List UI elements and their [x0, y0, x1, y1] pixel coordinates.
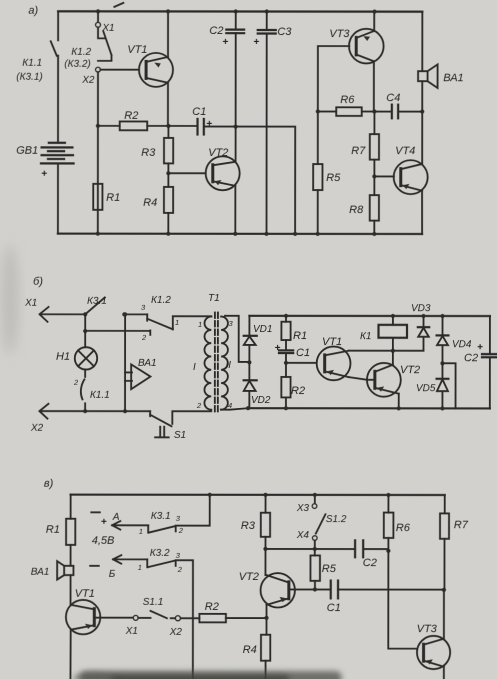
wire X2 to VT1 base — [100, 69, 139, 71]
svg-text:VD3: VD3 — [411, 303, 431, 314]
battery tap -B — [90, 555, 147, 580]
svg-text:VT3: VT3 — [329, 28, 350, 40]
wire left drop to switch — [57, 11, 59, 40]
secondary winding — [221, 317, 228, 410]
battery GB1 — [16, 143, 73, 180]
svg-text:2: 2 — [177, 565, 183, 574]
switch K3.1 blade — [85, 297, 105, 314]
resistor R1 — [281, 314, 307, 350]
primary winding — [204, 317, 211, 410]
svg-text:R1: R1 — [293, 330, 307, 342]
svg-text:Н1: Н1 — [56, 351, 70, 363]
svg-text:R6: R6 — [340, 94, 355, 106]
resistor R2 — [281, 353, 305, 408]
svg-text:С4: С4 — [386, 92, 400, 104]
svg-text:R2: R2 — [291, 385, 305, 397]
svg-text:2: 2 — [141, 333, 147, 342]
svg-text:К3.1: К3.1 — [151, 511, 171, 522]
microphone BA1 — [125, 358, 157, 389]
svg-text:I: I — [193, 362, 196, 373]
wire switch to battery — [57, 56, 59, 143]
wire R2 row — [98, 125, 197, 127]
svg-text:К3.1: К3.1 — [87, 296, 107, 307]
transistor VT2 — [367, 363, 420, 397]
capacitor C1 — [274, 343, 310, 359]
page shadow at bottom — [2, 245, 342, 679]
capacitor C2 — [355, 540, 388, 569]
svg-text:Х1: Х1 — [125, 626, 138, 637]
wire VT3 emitter down — [443, 667, 445, 679]
svg-text:1: 1 — [139, 527, 143, 536]
svg-text:С1: С1 — [192, 106, 206, 118]
stray mark above rail — [114, 3, 123, 7]
resistor R3 — [241, 493, 270, 549]
wire X2 node to S1 — [125, 410, 150, 412]
wire VT1 emitter to VT2 base — [349, 377, 375, 380]
svg-text:R1: R1 — [106, 192, 120, 204]
wire X1 node down to lamp node — [84, 314, 86, 331]
wire left drop — [70, 495, 72, 519]
svg-text:+: + — [222, 37, 228, 48]
svg-text:R3: R3 — [141, 147, 156, 159]
svg-text:R2: R2 — [205, 601, 219, 613]
wire top rail — [71, 494, 445, 497]
wire battery to bottom rail — [57, 163, 59, 233]
switch K1.1 (K3.1) blade — [51, 41, 57, 56]
svg-text:С3: С3 — [277, 26, 292, 38]
svg-text:R5: R5 — [326, 172, 341, 184]
capacitor C3 — [253, 9, 292, 48]
wire K3.1 contact to K1.2 — [124, 313, 147, 315]
wire VT2 emitter to rail — [398, 394, 400, 409]
node C1/C2 line — [234, 124, 238, 128]
transistor VT2 (mirrored) — [239, 571, 295, 608]
svg-text:С1: С1 — [296, 347, 310, 359]
svg-text:К3.2: К3.2 — [150, 548, 170, 559]
svg-text:С2: С2 — [209, 25, 223, 37]
resistor R7 — [351, 112, 379, 177]
resistor R3 — [141, 126, 173, 173]
svg-text:VD4: VD4 — [452, 339, 472, 350]
svg-text:1: 1 — [175, 318, 179, 327]
svg-text:4,5В: 4,5В — [92, 535, 115, 547]
svg-text:R7: R7 — [351, 145, 366, 157]
svg-text:К1.1: К1.1 — [22, 58, 42, 69]
svg-text:VT2: VT2 — [400, 364, 420, 376]
transistor VT1 — [317, 336, 351, 380]
svg-text:1: 1 — [138, 563, 142, 572]
core — [215, 312, 218, 412]
wire VT1 collector row — [349, 350, 424, 352]
relay K1 — [360, 314, 407, 365]
svg-text:R8: R8 — [349, 204, 364, 216]
svg-text:К1.2: К1.2 — [71, 47, 91, 58]
switch K1.1 — [73, 370, 110, 412]
svg-text:+: + — [206, 119, 212, 130]
svg-text:Х4: Х4 — [296, 530, 310, 541]
svg-text:R5: R5 — [322, 563, 337, 575]
capacitor C1 — [327, 581, 444, 615]
terminal arrow X1 — [24, 298, 85, 322]
svg-text:К1: К1 — [360, 331, 371, 342]
svg-text:К1.1: К1.1 — [90, 390, 110, 401]
svg-text:1: 1 — [198, 320, 202, 329]
wire VT1 emitter down — [69, 630, 71, 679]
wire C3 to bottom rail — [266, 34, 268, 234]
svg-text:в): в) — [44, 478, 54, 490]
node top rail X1 branch — [96, 9, 100, 13]
wire X2 to BA1 node — [85, 410, 125, 412]
switch K3.2 — [138, 548, 193, 679]
branch S1.2 — [296, 493, 347, 549]
transformer T1 — [193, 293, 234, 412]
svg-text:S1: S1 — [174, 430, 186, 441]
resistor R6 — [318, 94, 375, 116]
svg-text:С1: С1 — [327, 602, 341, 614]
svg-text:VT3: VT3 — [417, 623, 438, 635]
loudspeaker BA1 — [418, 64, 464, 88]
svg-text:ВА1: ВА1 — [31, 567, 50, 578]
resistor R8 — [349, 176, 379, 234]
svg-text:(К3.1): (К3.1) — [16, 72, 42, 83]
svg-text:(К3.2): (К3.2) — [64, 59, 90, 70]
svg-text:ВА1: ВА1 — [443, 72, 463, 84]
diode VD1 — [244, 316, 273, 363]
resistor R1 — [46, 519, 76, 545]
svg-text:С2: С2 — [464, 352, 478, 364]
battery tap +A — [91, 512, 148, 547]
svg-text:R4: R4 — [243, 644, 257, 656]
transistor VT3 — [417, 623, 451, 669]
svg-text:R6: R6 — [396, 522, 411, 534]
resistor R5 — [313, 111, 341, 233]
svg-text:Б: Б — [109, 569, 116, 580]
wire secondary top to diode node — [225, 316, 248, 362]
capacitor C4 — [374, 92, 422, 118]
wire rail to X1 — [97, 11, 99, 22]
wire VT2 emitter to bottom rail — [234, 186, 236, 234]
loudspeaker BA1 — [31, 561, 74, 580]
svg-text:2: 2 — [73, 378, 79, 387]
svg-text:R4: R4 — [143, 197, 157, 209]
wire right rail to VT4 collector — [421, 81, 423, 164]
wire VT2 emitter down — [266, 605, 268, 618]
wire secondary bottom to rectifier rail — [221, 408, 248, 410]
resistor R4 — [243, 618, 271, 679]
svg-text:VD2: VD2 — [251, 395, 271, 406]
wire R6 node to VT3 base — [388, 551, 417, 649]
switch K1.2 (K3.2) blade — [98, 27, 112, 61]
wire X2 down to bottom rail — [97, 72, 99, 234]
wire VD4 node to bottom rail — [442, 363, 455, 408]
wire BA1 to VT1 — [70, 575, 72, 605]
resistor R2 — [120, 110, 148, 130]
diode VD2 — [244, 362, 271, 408]
svg-text:VT1: VT1 — [75, 588, 95, 600]
svg-text:VT1: VT1 — [127, 44, 147, 56]
wire R3 node to VT2 collector — [264, 549, 266, 575]
svg-text:VD5: VD5 — [416, 383, 436, 394]
transistor VT2 — [206, 147, 240, 190]
wire C1 to corner then bottom rail — [204, 127, 296, 234]
terminal X2 — [96, 67, 101, 72]
wire C2 to VT2 collector — [235, 33, 237, 162]
transistor VT4 — [394, 145, 428, 194]
svg-text:Т1: Т1 — [208, 293, 220, 304]
transistor VT1 (mirrored) — [66, 588, 100, 635]
node bottom rail R1 — [96, 232, 100, 236]
capacitor C1 — [192, 106, 212, 135]
svg-text:Х3: Х3 — [296, 503, 310, 514]
svg-text:S1.1: S1.1 — [143, 597, 164, 608]
diode VD5 — [416, 363, 448, 408]
wire R1 to BA1 — [70, 545, 72, 566]
wire VT4 emitter to bottom rail — [421, 191, 423, 234]
wire right rail upper — [421, 12, 423, 71]
capacitor C2 — [464, 316, 497, 408]
svg-text:+: + — [101, 517, 107, 528]
resistor R7 — [440, 495, 469, 590]
svg-text:VD1: VD1 — [253, 324, 272, 335]
svg-text:VT2: VT2 — [208, 147, 228, 159]
terminal X1 — [96, 22, 101, 27]
node X2 line / R2 wire — [96, 124, 100, 128]
svg-text:+: + — [41, 169, 47, 180]
svg-text:+: + — [253, 37, 259, 48]
svg-text:2: 2 — [178, 526, 184, 535]
wire R3/R5 row — [265, 548, 354, 550]
resistor R6 — [384, 493, 411, 551]
wire rectifier bottom rail — [248, 407, 490, 409]
wire VT4 base — [374, 175, 394, 177]
wire rectifier top rail — [249, 315, 489, 317]
node K3.1 contact — [122, 312, 126, 316]
svg-text:2: 2 — [196, 401, 202, 410]
svg-text:GB1: GB1 — [16, 145, 38, 157]
capacitor C2 — [209, 9, 244, 48]
wire R7 node to VT3 collector — [443, 590, 445, 639]
terminal X2 — [175, 616, 180, 621]
terminal X1 — [133, 615, 138, 620]
svg-text:Х1: Х1 — [24, 298, 37, 309]
svg-text:Х2: Х2 — [169, 627, 183, 638]
resistor R1 — [93, 184, 120, 210]
svg-text:S1.2: S1.2 — [326, 514, 347, 525]
svg-text:VT1: VT1 — [322, 336, 342, 348]
resistor R4 — [143, 173, 173, 234]
svg-text:R1: R1 — [46, 524, 60, 536]
switch K3.1 — [139, 493, 212, 536]
svg-text:VT4: VT4 — [395, 145, 415, 157]
svg-text:К1.2: К1.2 — [151, 295, 171, 306]
svg-text:ВА1: ВА1 — [138, 358, 157, 369]
diode VD4 — [437, 314, 472, 363]
wire VT3 emitter down — [373, 61, 375, 111]
wire VT3 base branch — [318, 46, 349, 111]
wire bottom rail — [58, 233, 422, 236]
svg-text:С2: С2 — [363, 557, 377, 569]
wire VT3 collector to rail — [373, 12, 375, 31]
svg-text:VT2: VT2 — [239, 571, 259, 583]
svg-text:Х2: Х2 — [81, 75, 95, 86]
wire VT1 base to X1 — [94, 617, 133, 619]
wire X2 to R2 — [171, 617, 200, 619]
transistor VT3 — [329, 28, 383, 63]
lamp H1 — [56, 331, 97, 370]
switch S1.1 — [138, 597, 167, 618]
push button S1 — [150, 411, 211, 441]
wire VT1 emitter down — [167, 83, 169, 126]
svg-text:II: II — [225, 360, 231, 371]
terminal arrow X2 — [30, 404, 85, 434]
svg-text:а): а) — [28, 5, 38, 17]
svg-text:R2: R2 — [124, 110, 138, 122]
svg-text:Х2: Х2 — [30, 423, 44, 434]
wire BA1 branch vertical — [124, 314, 126, 411]
svg-text:+: + — [274, 343, 280, 354]
node X1 wire — [83, 312, 87, 316]
svg-text:R7: R7 — [454, 519, 469, 531]
wire lamp node to K1.2 lower contact — [85, 330, 150, 335]
wire VT1 collector to top rail — [167, 11, 169, 56]
resistor R2 — [199, 601, 266, 622]
wire VT2 base — [168, 172, 205, 174]
switch K1.2 — [141, 295, 211, 329]
svg-text:б): б) — [33, 276, 43, 288]
wire top rail — [58, 10, 422, 13]
wire VT2 base row — [289, 588, 331, 590]
transistor VT1 — [127, 44, 173, 87]
wire VT1 base — [286, 362, 317, 364]
resistor R5 — [310, 549, 336, 590]
svg-text:R3: R3 — [241, 520, 256, 532]
diode VD3 — [411, 303, 431, 351]
